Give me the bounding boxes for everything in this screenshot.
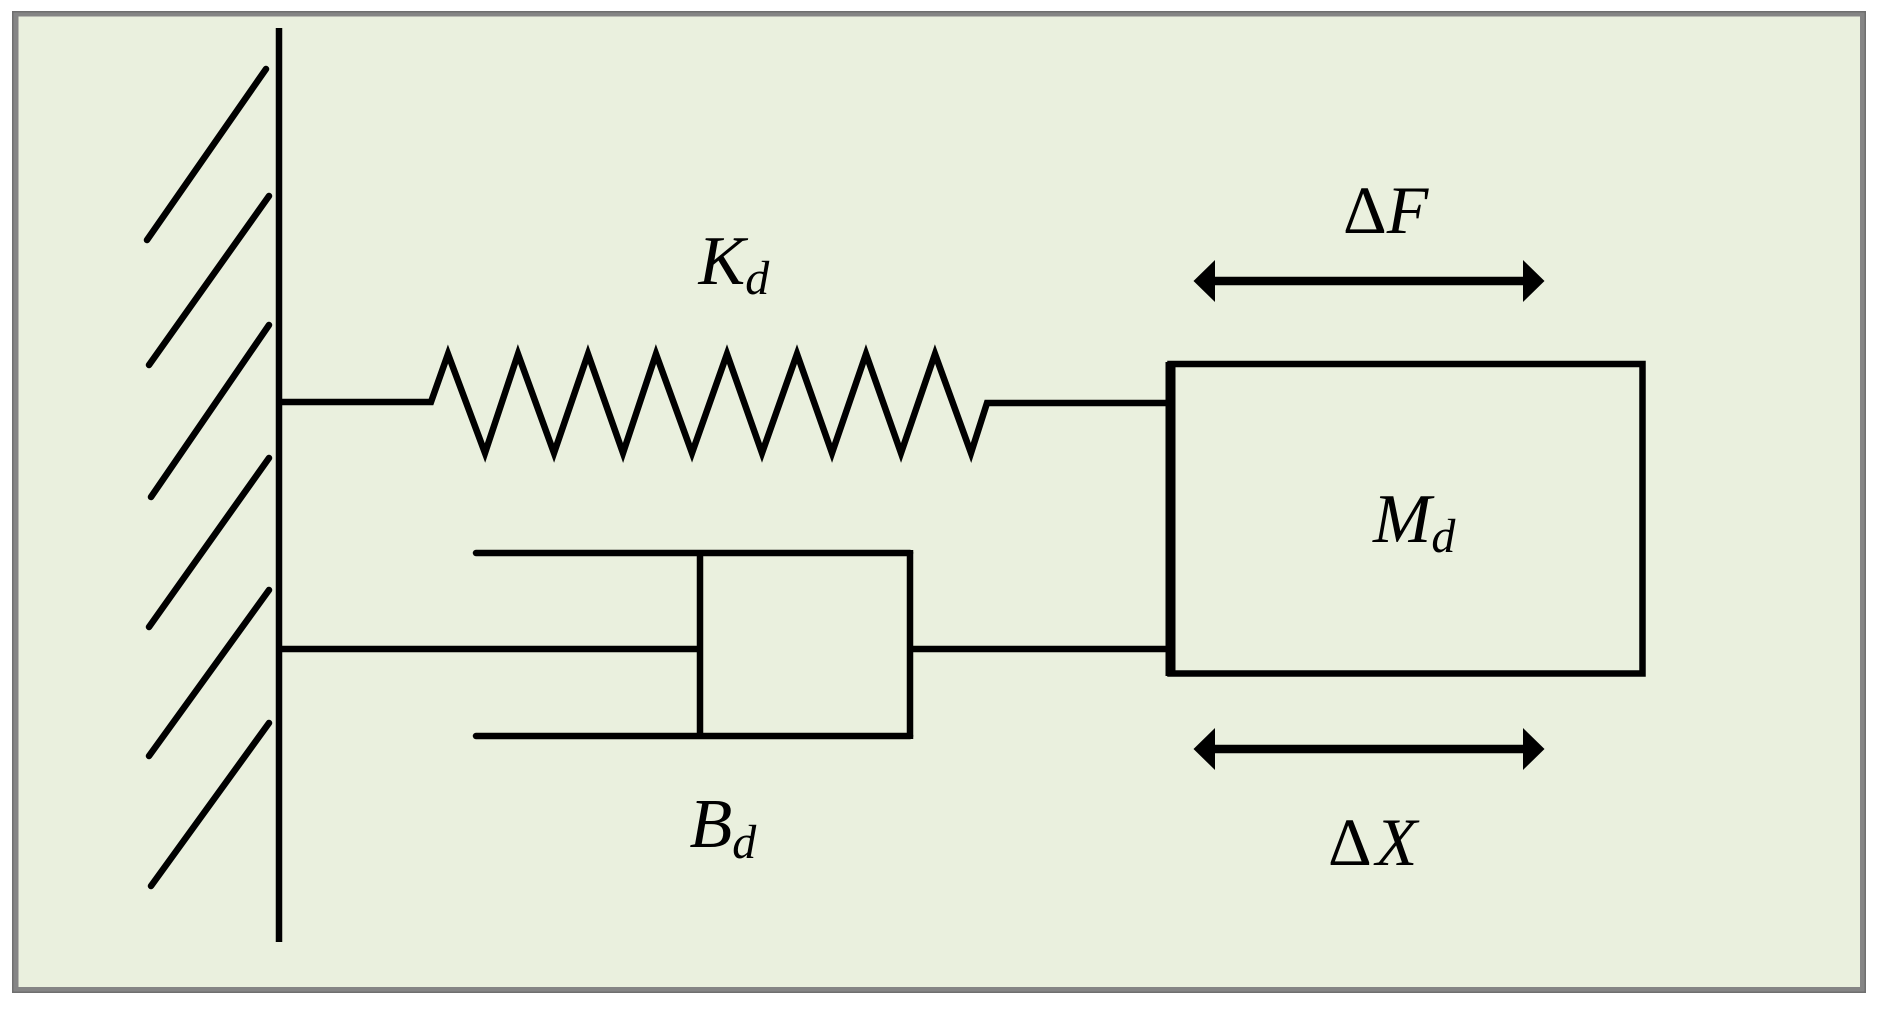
mass left edge (doubled line) [1166,362,1176,676]
arrow dF [1194,260,1545,302]
wall hatch 5 [149,590,269,756]
wall hatch 6 [151,723,269,886]
wall hatch 3 [151,325,269,497]
wall hatch 4 [149,458,269,627]
damper cylinder top [476,550,910,557]
mass Md box [1171,364,1643,674]
damper piston [697,553,704,736]
damper cylinder right end [907,550,914,739]
wall hatch 2 [149,196,269,365]
arrow dX [1194,728,1545,770]
wall hatch 1 [147,69,266,240]
damper cylinder bottom [476,733,910,740]
svg-text:ΔF: ΔF [1343,172,1430,248]
damper rod right [910,646,1170,653]
damper rod left [282,646,700,653]
spring Kd [282,354,1170,453]
wall [276,28,283,942]
